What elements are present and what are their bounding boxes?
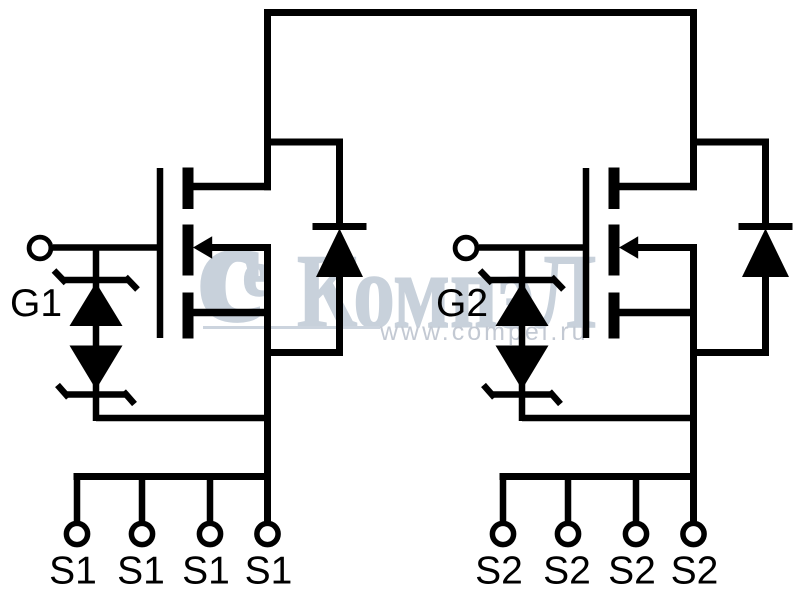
zener Z4 triangle xyxy=(496,346,549,390)
wire gate to zener string xyxy=(93,245,100,422)
transistor Q2 channel segment middle xyxy=(609,225,620,276)
transistor Q1 source lead xyxy=(190,309,271,317)
wire Q1 source vertical xyxy=(264,248,271,523)
terminal S1 pin circle 3 xyxy=(199,523,220,544)
wire branch to body diode D1 xyxy=(264,139,343,146)
svg-text:G1: G1 xyxy=(10,282,62,325)
wire S2 pin stub 3 xyxy=(633,473,640,522)
svg-text:S1: S1 xyxy=(245,550,293,593)
zener Z3 triangle xyxy=(496,283,549,327)
transistor Q1 gate bar xyxy=(157,168,164,338)
zener Z3 cathode bar xyxy=(489,277,555,284)
transistor Q1 channel segment middle xyxy=(183,225,194,276)
transistor Q1 channel segment top xyxy=(183,168,194,210)
wire top drain rail xyxy=(264,9,697,16)
transistor Q2 drain lead xyxy=(616,183,697,191)
zener Z4 cathode bar xyxy=(492,391,552,398)
svg-text:S1: S1 xyxy=(182,550,230,593)
diode D2 triangle xyxy=(742,229,789,278)
wire zener string to source xyxy=(96,415,271,422)
wire branch to body diode D2 xyxy=(690,139,769,146)
zener Z2 cathode bar xyxy=(66,391,126,398)
wire zener string to source xyxy=(522,415,697,422)
svg-text:S2: S2 xyxy=(671,550,719,593)
svg-text:S2: S2 xyxy=(543,550,591,593)
terminal S1 pin circle 1 xyxy=(66,523,87,544)
wire Q2 source vertical xyxy=(690,248,697,523)
zener Z1 triangle xyxy=(70,283,123,327)
svg-text:G2: G2 xyxy=(436,282,488,325)
wire D1 anode to source xyxy=(264,349,343,356)
terminal G1 pin circle xyxy=(29,237,51,259)
diode D1 cathode bar xyxy=(313,223,367,230)
terminal S2 pin circle 3 xyxy=(625,523,646,544)
transistor Q2 gate bar xyxy=(583,168,590,338)
wire D2 anode vertical xyxy=(762,274,769,356)
transistor Q2 body arrow xyxy=(619,236,638,258)
svg-text:S1: S1 xyxy=(49,550,97,593)
zener Z2 triangle xyxy=(70,346,123,390)
wire G1 gate lead xyxy=(53,244,163,251)
svg-text:S1: S1 xyxy=(117,550,165,593)
svg-text:S2: S2 xyxy=(475,550,523,593)
terminal G2 pin circle xyxy=(455,237,477,259)
transistor Q2 channel segment top xyxy=(609,168,620,210)
svg-text:S2: S2 xyxy=(608,550,656,593)
wire D1 anode vertical xyxy=(336,274,343,356)
transistor Q1 body arrow xyxy=(193,236,212,258)
watermark underline xyxy=(203,326,380,329)
transistor Q2 channel segment bottom xyxy=(609,293,620,339)
terminal S1 pin circle 4 xyxy=(257,523,278,544)
terminal S1 pin circle 2 xyxy=(131,523,152,544)
wire Q2 drain vertical xyxy=(690,9,697,190)
wire D2 anode to source xyxy=(690,349,769,356)
wire Q1 drain vertical xyxy=(264,9,271,190)
wire S1 pin stub 3 xyxy=(207,473,214,522)
wire S1 pin stub 2 xyxy=(139,473,146,522)
terminal S2 pin circle 1 xyxy=(492,523,513,544)
transistor Q1 channel segment bottom xyxy=(183,293,194,339)
wire S2 pin stub 1 xyxy=(500,473,507,522)
terminal S2 pin circle 4 xyxy=(683,523,704,544)
wire S2 pin stub 2 xyxy=(565,473,572,522)
transistor Q2 source lead xyxy=(616,309,697,317)
wire Q2 body to source xyxy=(632,244,697,251)
diode D1 triangle xyxy=(316,229,363,278)
wire G2 gate lead xyxy=(479,244,589,251)
wire S1 bottom rail xyxy=(74,473,272,480)
wire gate to zener string xyxy=(519,245,526,422)
wire S2 bottom rail xyxy=(500,473,698,480)
zener Z1 cathode bar xyxy=(63,277,129,284)
wire S1 pin stub 1 xyxy=(74,473,81,522)
wire Q1 body to source xyxy=(206,244,271,251)
transistor Q1 drain lead xyxy=(190,183,271,191)
diode D2 cathode bar xyxy=(739,223,793,230)
wire D2 cathode vertical xyxy=(762,139,769,229)
wire D1 cathode vertical xyxy=(336,139,343,229)
terminal S2 pin circle 2 xyxy=(557,523,578,544)
